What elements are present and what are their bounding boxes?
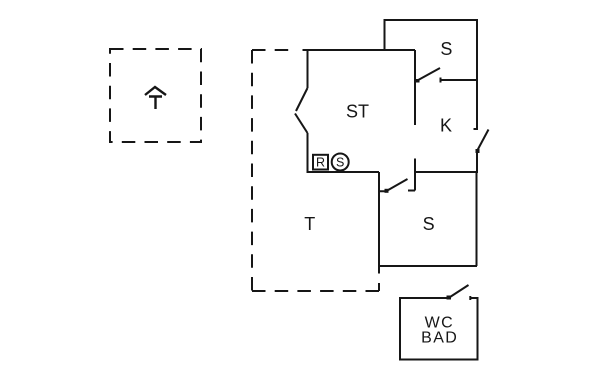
- svg-text:BAD: BAD: [421, 329, 458, 346]
- svg-text:S: S: [440, 39, 452, 59]
- svg-text:T: T: [304, 214, 315, 234]
- svg-text:S: S: [423, 214, 435, 234]
- svg-text:ST: ST: [346, 101, 369, 121]
- svg-text:S: S: [336, 156, 344, 170]
- svg-text:K: K: [440, 116, 452, 136]
- svg-text:R: R: [316, 156, 325, 170]
